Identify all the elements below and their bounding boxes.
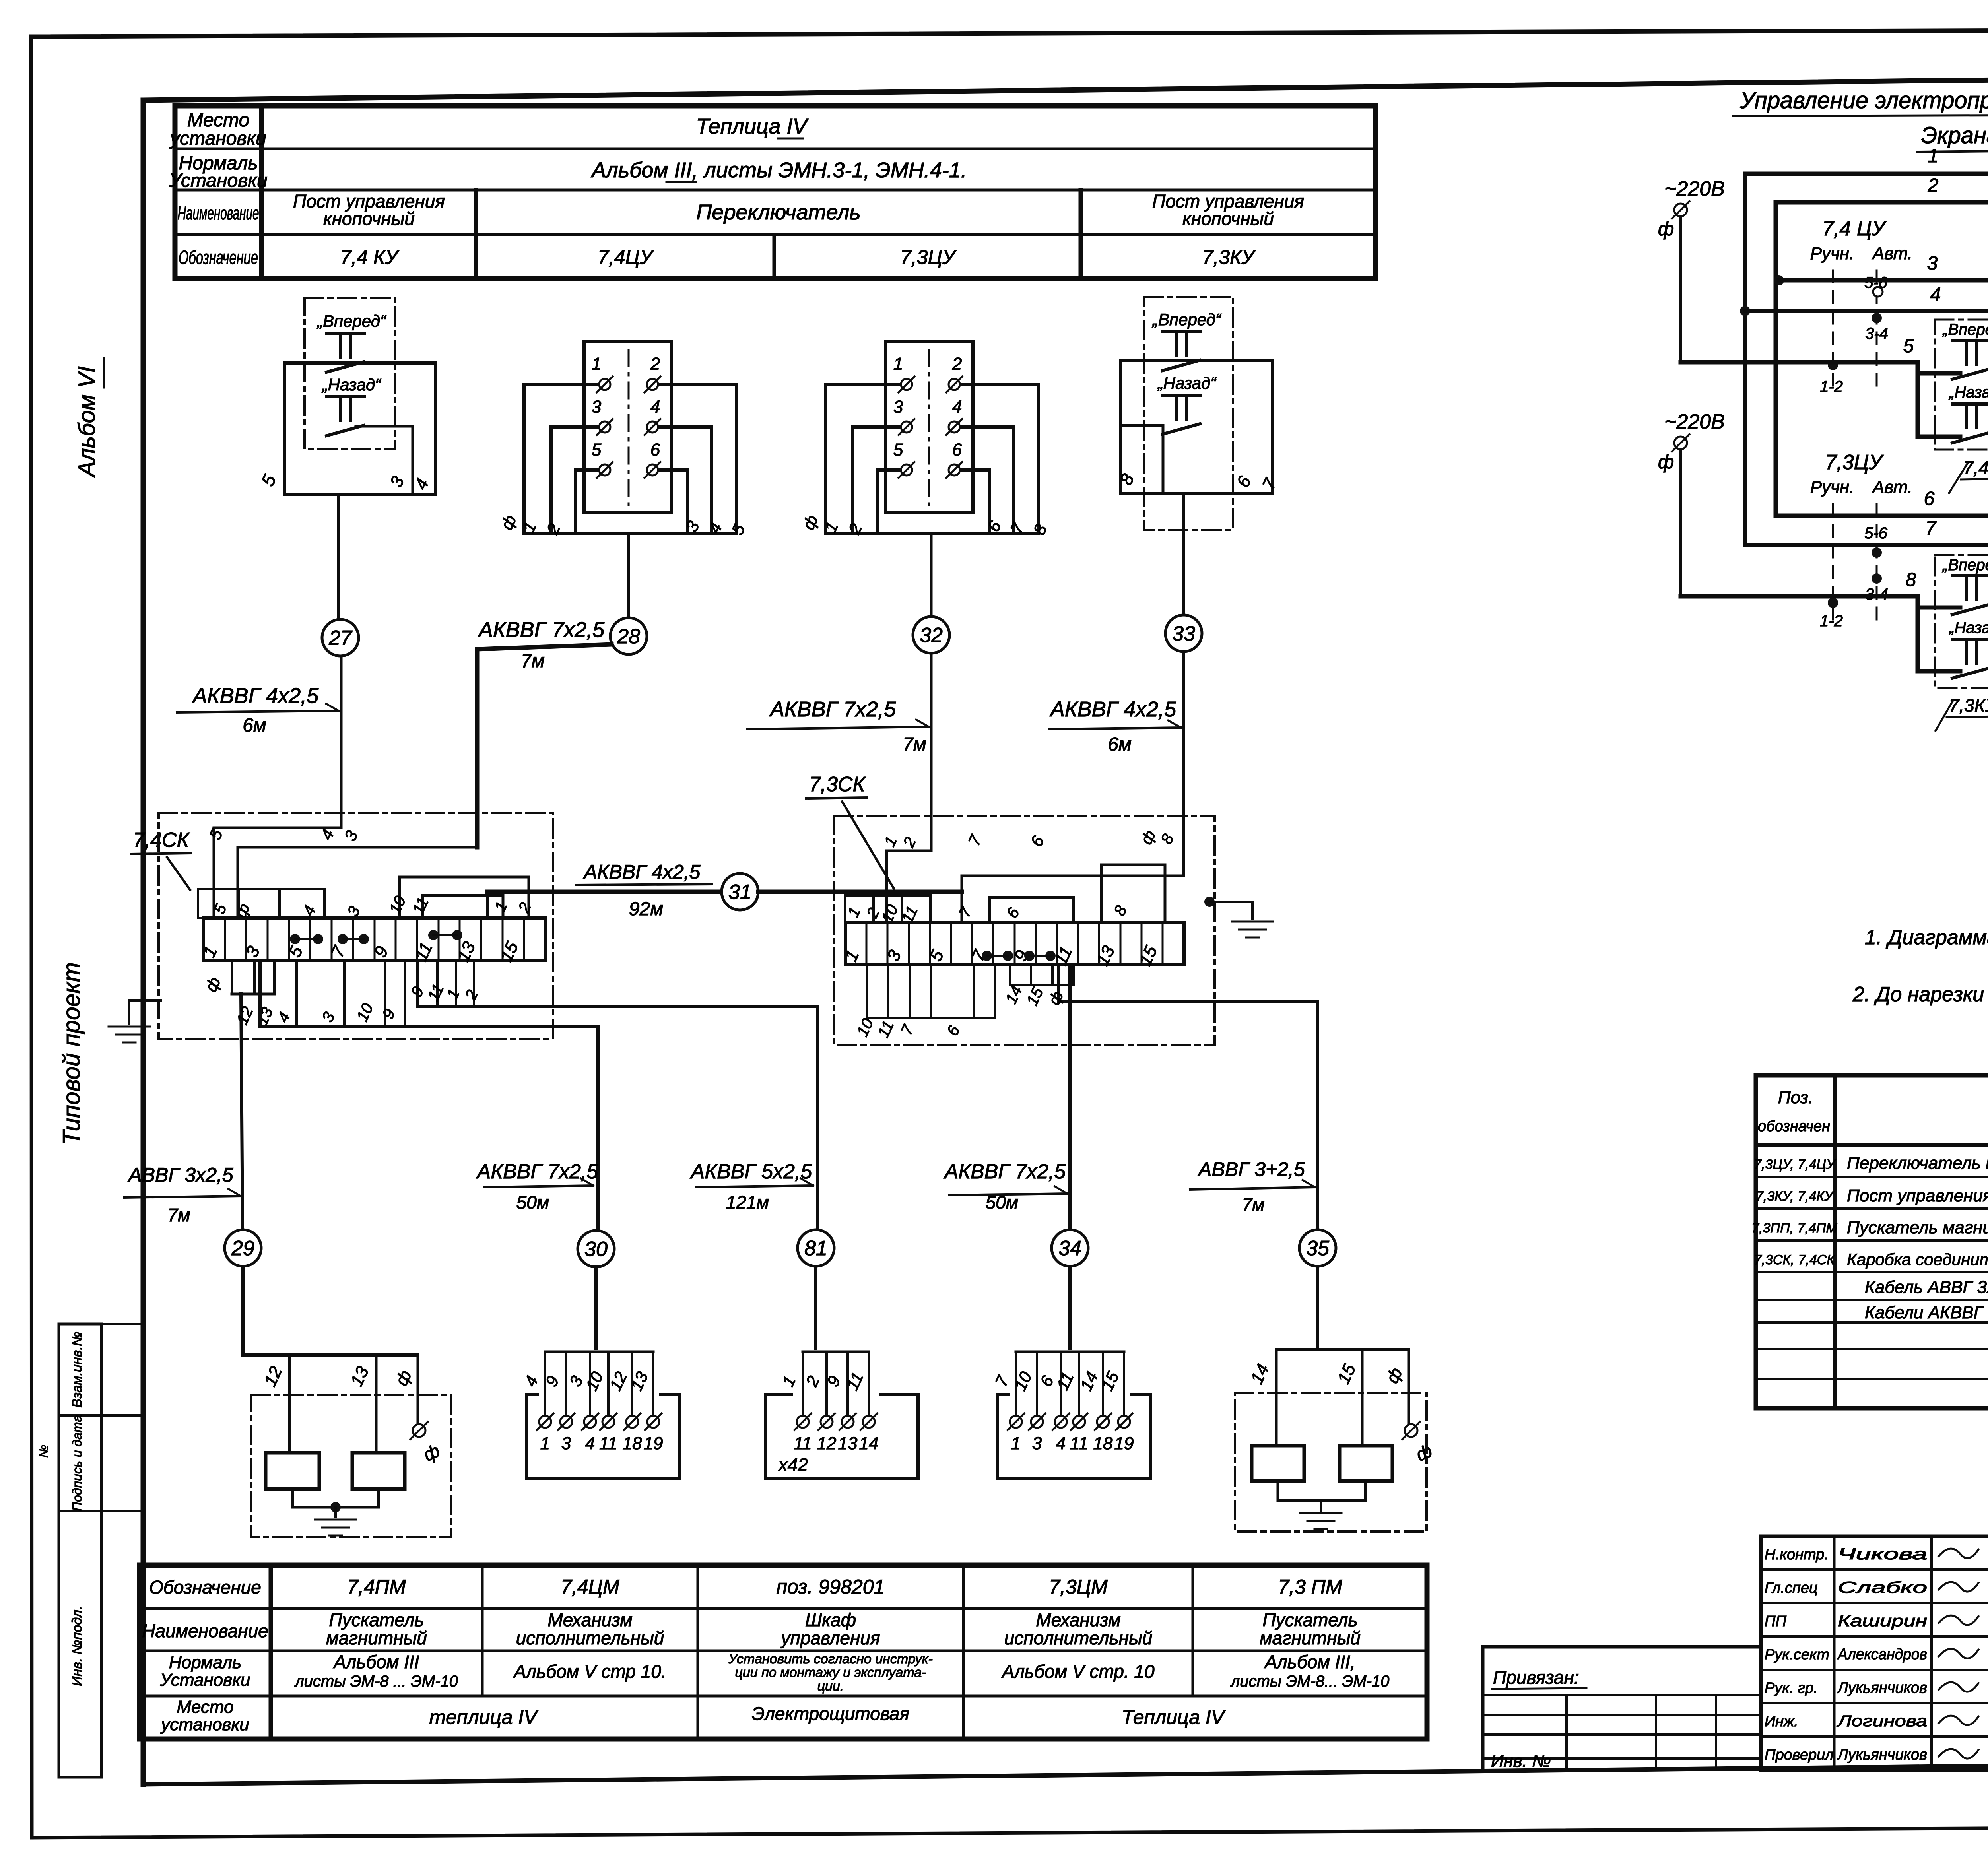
svg-text:Пускатель: Пускатель [1262, 1609, 1357, 1630]
svg-text:1: 1 [1928, 146, 1939, 167]
svg-text:2: 2 [650, 354, 660, 374]
junction box 7,3СК dash-dot enclosure [834, 816, 1215, 1045]
svg-text:Александров: Александров [1837, 1646, 1927, 1663]
svg-text:3: 3 [386, 473, 408, 490]
svg-text:ф: ф [420, 1440, 443, 1465]
svg-text:7: 7 [992, 1372, 1013, 1390]
svg-text:5-6: 5-6 [1864, 274, 1888, 291]
svg-text:исполнительный: исполнительный [1004, 1628, 1153, 1648]
svg-text:Альбом V стр. 10: Альбом V стр. 10 [1001, 1661, 1155, 1682]
svg-text:Установить согласно инструк-: Установить согласно инструк- [728, 1652, 933, 1667]
terminal strip of 7,3СК [841, 922, 1184, 969]
svg-text:Место: Место [177, 1697, 233, 1717]
circuit title Управление электроприводами теплозащитного экрана [1734, 87, 1988, 152]
packet switch 7,3ЦУ pins [893, 354, 962, 478]
svg-text:Механизм: Механизм [1036, 1609, 1120, 1630]
svg-text:11: 11 [1070, 1434, 1088, 1453]
svg-text:7,3ЦУ: 7,3ЦУ [900, 246, 957, 268]
svg-text:11: 11 [410, 895, 432, 917]
svg-text:10: 10 [353, 1001, 377, 1024]
svg-text:5: 5 [257, 471, 280, 489]
svg-text:8: 8 [1158, 831, 1178, 846]
wire: 7,4КУ to cable 27 [337, 495, 340, 619]
svg-text:Ручн.: Ручн. [1810, 477, 1854, 497]
svg-text:19: 19 [1114, 1434, 1134, 1453]
svg-text:32: 32 [920, 624, 943, 647]
svg-text:7,3 ПМ: 7,3 ПМ [1278, 1576, 1342, 1598]
svg-text:1: 1 [491, 899, 511, 914]
cable marker 33 [1165, 615, 1202, 652]
starter 7,3ПМ wiring bus [1247, 1349, 1435, 1465]
svg-text:50м: 50м [986, 1192, 1019, 1213]
svg-text:Установки: Установки [169, 170, 267, 191]
svg-text:4: 4 [1056, 1434, 1066, 1453]
starter 7,3ПМ dash-dot enclosure [1235, 1393, 1427, 1531]
starter 7,3ПМ ground link [1278, 1481, 1365, 1529]
svg-text:18: 18 [1093, 1434, 1113, 1453]
svg-text:11: 11 [875, 1018, 897, 1040]
svg-text:ПП: ПП [1765, 1613, 1787, 1630]
svg-text:29: 29 [231, 1237, 254, 1260]
margin text Альбом VI [74, 358, 104, 478]
signature table [1761, 1536, 1988, 1770]
AC source ~220В (upper) [1658, 177, 1725, 362]
svg-text:6: 6 [1924, 488, 1935, 509]
svg-text:30: 30 [584, 1238, 608, 1261]
svg-text:Типовой проект: Типовой проект [58, 962, 85, 1145]
terminal box 7,3ЦМ body [998, 1395, 1150, 1479]
svg-text:исполнительный: исполнительный [516, 1628, 664, 1648]
svg-text:4: 4 [585, 1434, 595, 1453]
svg-text:установки: установки [160, 1715, 249, 1734]
svg-text:Установки: Установки [160, 1670, 250, 1690]
svg-text:листы ЭМ-8... ЭМ-10: листы ЭМ-8... ЭМ-10 [1230, 1673, 1390, 1690]
svg-text:15: 15 [1334, 1361, 1359, 1387]
svg-text:ф: ф [1658, 452, 1674, 473]
svg-text:Шкаф: Шкаф [805, 1609, 856, 1630]
svg-text:50м: 50м [516, 1192, 549, 1213]
svg-text:1: 1 [779, 1373, 799, 1389]
svg-text:3-4: 3-4 [1865, 325, 1888, 342]
svg-text:7м: 7м [1242, 1194, 1264, 1215]
svg-text:Теплица IV: Теплица IV [696, 115, 809, 138]
svg-text:6: 6 [650, 440, 660, 460]
junction box 7,3СК label [806, 773, 894, 889]
svg-text:АВВГ 3х2,5: АВВГ 3х2,5 [127, 1164, 233, 1186]
svg-text:магнитный: магнитный [326, 1628, 427, 1648]
svg-text:Проверил: Проверил [1765, 1747, 1834, 1763]
svg-text:4: 4 [952, 397, 962, 417]
svg-text:18: 18 [623, 1434, 642, 1453]
wire 4 [1740, 284, 1988, 362]
wire 8 with buttons 7,3КУ [1681, 569, 1988, 608]
packet switch 7,4ЦУ body [584, 342, 671, 512]
svg-text:Рук.сект: Рук.сект [1765, 1646, 1829, 1663]
svg-text:„Назад“: „Назад“ [1948, 619, 1988, 637]
svg-text:Привязан:: Привязан: [1493, 1667, 1579, 1688]
cable marker 34 with label АКВВГ 7х2,5 50м [944, 1160, 1088, 1349]
wire loops above strip of 7,4СК [206, 826, 535, 920]
svg-text:14: 14 [1077, 1369, 1101, 1394]
svg-text:ции.: ции. [817, 1679, 844, 1694]
svg-text:Чикова: Чикова [1838, 1545, 1927, 1563]
push-button post 7,3КУ dash-dot enclosure [1144, 297, 1233, 530]
svg-text:28: 28 [617, 625, 640, 648]
svg-text:Каробка соединительная КСК-1: Каробка соединительная КСК-16 ТУ36.1073-… [1847, 1250, 1988, 1269]
svg-text:12: 12 [606, 1369, 631, 1394]
svg-text:АКВВГ 4х2,5: АКВВГ 4х2,5 [1049, 697, 1176, 721]
svg-text:ции по монтажу и эксплуата-: ции по монтажу и эксплуата- [735, 1665, 926, 1680]
svg-text:7: 7 [1926, 518, 1937, 539]
starter 7,4ПМ dash-dot enclosure [251, 1395, 451, 1537]
svg-text:2. До нарезки кабелей длины тр: 2. До нарезки кабелей длины трасс уточни… [1852, 983, 1988, 1006]
wire 5 with buttons 7,4КУ [1681, 336, 1988, 373]
packet switch 7,4ЦУ pins [592, 354, 660, 478]
svg-text:2: 2 [952, 354, 962, 374]
starter 7,4ПМ coil 1 [266, 1453, 319, 1489]
svg-text:1-2: 1-2 [1820, 378, 1843, 396]
svg-text:7,3ЦУ, 7,4ЦУ: 7,3ЦУ, 7,4ЦУ [1754, 1157, 1836, 1172]
ground of 7,3СК [1204, 897, 1273, 937]
svg-text:Каширин: Каширин [1838, 1612, 1927, 1630]
terminal box х42 bus and drops [779, 1352, 869, 1415]
svg-text:5-6: 5-6 [1864, 524, 1888, 542]
svg-text:х42: х42 [778, 1454, 808, 1475]
cable label АКВВГ 7х2,5 7м (pos.32) [747, 697, 929, 755]
wire 6 [1776, 488, 1988, 660]
svg-text:11: 11 [599, 1434, 617, 1453]
svg-text:Пускатель: Пускатель [329, 1609, 424, 1630]
svg-text:3: 3 [319, 1009, 338, 1025]
svg-text:5: 5 [592, 440, 602, 460]
svg-text:„Вперед“: „Вперед“ [1942, 321, 1988, 338]
svg-text:34: 34 [1058, 1237, 1081, 1260]
cable 28 route with label АКВВГ 7х2,5 7м [477, 618, 612, 847]
table: device header (Место установки / Нормаль установки / Наименование / Обозначение) [169, 106, 1376, 278]
table: bottom device list [140, 1565, 1427, 1739]
jumper links in 7,4СК [290, 930, 462, 944]
svg-text:12: 12 [817, 1434, 837, 1453]
svg-text:Экрана: Экрана [1921, 122, 1988, 148]
svg-text:7,3ЦМ: 7,3ЦМ [1049, 1576, 1108, 1598]
wire from Назад button 7,3 to pin 4 [1918, 600, 1988, 671]
push-button post 7,3КУ body [1116, 361, 1280, 494]
svg-text:7,4СУ: 7,4СУ [1963, 457, 1988, 478]
svg-text:Слабко: Слабко [1838, 1579, 1927, 1596]
svg-text:ф: ф [1382, 1365, 1406, 1386]
button Вперед of 7,4КУ [316, 312, 386, 372]
button Вперед of 7,3КУ [1152, 310, 1222, 371]
svg-text:1: 1 [845, 904, 864, 920]
svg-text:14: 14 [1247, 1361, 1273, 1387]
svg-text:2: 2 [845, 520, 866, 537]
svg-text:Авт.: Авт. [1872, 244, 1912, 263]
svg-text:Поз.: Поз. [1778, 1088, 1813, 1107]
cable marker 29 with label АВВГ 3х2,5 7м [124, 1164, 261, 1355]
wire 7 [1745, 518, 1988, 632]
svg-text:АКВВГ 4х2,5: АКВВГ 4х2,5 [192, 684, 319, 708]
svg-text:ф: ф [799, 512, 821, 533]
svg-text:35: 35 [1306, 1237, 1330, 1260]
svg-text:2: 2 [900, 835, 920, 850]
button post 7,4КУ in circuit (dash-dot) [1935, 320, 1988, 493]
wire loops of 7,3ЦУ [799, 384, 1050, 538]
svg-text:13: 13 [838, 1434, 858, 1453]
svg-text:92м: 92м [629, 899, 663, 920]
svg-text:15: 15 [1023, 984, 1047, 1008]
svg-text:3: 3 [893, 397, 903, 417]
terminal box 7,4ЦМ bus and drops [521, 1352, 653, 1415]
svg-text:1: 1 [592, 354, 601, 374]
svg-text:13: 13 [627, 1369, 652, 1394]
svg-text:7: 7 [965, 832, 986, 849]
cable marker 30 with label АКВВГ 7х2,5 50м [476, 1160, 614, 1349]
svg-text:АКВВГ 5х2,5: АКВВГ 5х2,5 [690, 1160, 813, 1183]
svg-text:Альбом VI: Альбом VI [74, 366, 100, 477]
svg-text:Инж.: Инж. [1765, 1713, 1798, 1730]
svg-text:7,3СК: 7,3СК [809, 773, 866, 796]
svg-text:Обозначение: Обозначение [149, 1577, 261, 1597]
svg-text:Альбом III: Альбом III [333, 1652, 419, 1672]
wire 3 [1774, 253, 1988, 424]
svg-text:ф: ф [1413, 1440, 1435, 1465]
svg-text:2: 2 [543, 520, 564, 537]
svg-text:АКВВГ 4х2,5: АКВВГ 4х2,5 [583, 861, 701, 883]
svg-text:31: 31 [728, 881, 751, 904]
wire loops of 7,4ЦУ [497, 384, 749, 538]
junction box 7,4СК label [131, 829, 191, 890]
svg-text:7м: 7м [903, 734, 926, 755]
jumper links in 7,3СК [982, 951, 1056, 961]
cable 31 link between boxes [487, 861, 962, 922]
svg-text:10: 10 [582, 1368, 607, 1394]
svg-text:АКВВГ 7х2,5: АКВВГ 7х2,5 [476, 1160, 599, 1183]
svg-text:4: 4 [274, 1009, 294, 1025]
svg-text:Альбом III, листы ЭМН.3-1, ЭМ: Альбом III, листы ЭМН.3-1, ЭМН.4-1. [590, 158, 967, 182]
svg-text:7,3КУ: 7,3КУ [1202, 246, 1256, 268]
svg-text:1: 1 [540, 1434, 550, 1453]
svg-text:Взам.инв.№: Взам.инв.№ [70, 1331, 85, 1407]
svg-text:2: 2 [515, 900, 535, 916]
svg-text:2: 2 [1928, 175, 1939, 196]
svg-text:3: 3 [566, 1373, 586, 1389]
svg-text:14: 14 [859, 1434, 879, 1453]
svg-text:4: 4 [1930, 284, 1941, 305]
svg-text:7,4СК: 7,4СК [133, 829, 190, 852]
svg-text:Переключатель пакетный ПКП25: Переключатель пакетный ПКП25- 44- 13- У2 [1847, 1153, 1988, 1173]
svg-text:121м: 121м [726, 1192, 769, 1213]
svg-text:7,4ЦУ: 7,4ЦУ [598, 246, 654, 268]
svg-text:ф: ф [201, 974, 224, 995]
svg-text:1: 1 [893, 354, 903, 374]
svg-text:7,4 ЦУ: 7,4 ЦУ [1822, 217, 1887, 240]
svg-text:Гл.спец: Гл.спец [1765, 1580, 1818, 1596]
svg-text:6м: 6м [243, 715, 266, 736]
svg-text:кнопочный: кнопочный [323, 208, 415, 229]
svg-text:АВВГ 3+2,5: АВВГ 3+2,5 [1197, 1158, 1305, 1180]
svg-text:6: 6 [944, 1023, 964, 1038]
svg-text:~220В: ~220В [1664, 177, 1725, 200]
svg-text:9: 9 [379, 1006, 399, 1022]
svg-text:Подпись и дата: Подпись и дата [70, 1415, 84, 1511]
packet switch 7,3ЦУ body [886, 342, 973, 512]
svg-text:12: 12 [260, 1363, 286, 1389]
upper cell row of 7,3СК [845, 895, 930, 922]
svg-text:1-2: 1-2 [1820, 612, 1843, 630]
svg-text:14: 14 [1002, 983, 1026, 1007]
svg-text:Альбом V стр 10.: Альбом V стр 10. [513, 1661, 666, 1682]
svg-text:Пускатель магнитный: Пускатель магнитный [1847, 1218, 1988, 1237]
button post 7,3КУ in circuit (dash-dot) [1935, 555, 1988, 731]
svg-text:33: 33 [1172, 622, 1195, 645]
svg-text:АКВВГ 7х2,5: АКВВГ 7х2,5 [478, 618, 605, 642]
binding table Привязан [1483, 1647, 1761, 1771]
terminal box 7,3ЦМ bus and drops [992, 1352, 1124, 1415]
terminal box х42 body [765, 1395, 918, 1479]
svg-text:27: 27 [328, 627, 353, 650]
push-button post 7,4КУ dash-dot enclosure [305, 298, 395, 449]
wire: 7,3ЦУ to cable 32 [930, 533, 933, 617]
svg-text:3: 3 [592, 397, 602, 417]
svg-text:обозначен: обозначен [1758, 1118, 1830, 1135]
cable label АКВВГ 4х2,5 6м (pos.33) [1049, 697, 1181, 755]
ground of 7,4СК [109, 1000, 161, 1042]
svg-text:Обозначение: Обозначение [179, 247, 258, 268]
bus wire 1 [1745, 146, 1988, 545]
svg-text:Нормаль: Нормаль [169, 1653, 241, 1672]
margin stamp strip [37, 1324, 143, 1777]
wire: cable 27 down to box 7,4СК [340, 656, 343, 828]
svg-text:„Вперед“: „Вперед“ [1152, 310, 1222, 329]
svg-text:1. Диаграмма работы переключ: 1. Диаграмма работы переключателей дана … [1865, 926, 1988, 949]
starter 7,4ПМ coil 2 [352, 1453, 405, 1489]
svg-text:5: 5 [1903, 336, 1914, 357]
svg-text:поз. 998201: поз. 998201 [777, 1576, 885, 1598]
wire: cable 32 down to box 7,3СК [930, 653, 933, 851]
terminal strip of 7,4СК [199, 918, 545, 965]
svg-text:7м: 7м [167, 1205, 190, 1225]
svg-text:листы ЭМ-8 ... ЭМ-10: листы ЭМ-8 ... ЭМ-10 [294, 1673, 458, 1690]
svg-text:4: 4 [300, 903, 319, 918]
svg-text:Электрощитовая: Электрощитовая [752, 1703, 909, 1724]
svg-text:5: 5 [893, 440, 903, 460]
svg-text:11: 11 [843, 1369, 867, 1393]
wires below strip of 7,3СК to starters [854, 964, 1318, 1230]
svg-text:Авт.: Авт. [1872, 477, 1912, 497]
svg-text:81: 81 [804, 1237, 827, 1260]
svg-text:5: 5 [728, 521, 749, 538]
svg-text:2: 2 [462, 987, 481, 1003]
svg-text:Теплица IV: Теплица IV [1122, 1706, 1226, 1728]
svg-text:Инв. №подл.: Инв. №подл. [70, 1606, 85, 1686]
AC source ~220В (lower) [1658, 410, 1725, 596]
svg-text:магнитный: магнитный [1260, 1628, 1361, 1648]
svg-text:ф: ф [392, 1367, 415, 1389]
svg-text:7,4 КУ: 7,4 КУ [340, 246, 400, 268]
cable marker 28 [610, 618, 647, 654]
svg-text:Инв. №: Инв. № [1491, 1751, 1551, 1771]
svg-text:АКВВГ 7х2,5: АКВВГ 7х2,5 [944, 1160, 1066, 1183]
svg-text:3: 3 [1032, 1434, 1042, 1453]
svg-text:Пост управления кнопочный П: Пост управления кнопочный ПКЕ222- 2 [1847, 1186, 1988, 1205]
svg-text:7м: 7м [521, 650, 545, 672]
svg-text:ф: ф [497, 512, 520, 533]
svg-text:№: № [37, 1445, 50, 1458]
junction box 7,4СК dash-dot enclosure [159, 813, 553, 1039]
svg-text:кнопочный: кнопочный [1182, 208, 1274, 229]
svg-text:6: 6 [952, 440, 962, 460]
svg-text:8: 8 [1906, 569, 1916, 590]
svg-text:13: 13 [347, 1363, 373, 1390]
svg-text:11: 11 [1053, 1369, 1077, 1393]
svg-text:ф: ф [1658, 219, 1674, 240]
svg-text:10: 10 [386, 893, 410, 917]
wire: 7,3КУ to cable 33 [1182, 494, 1185, 616]
starter 7,4ПМ ground link [293, 1489, 379, 1535]
svg-text:„Назад“: „Назад“ [322, 375, 381, 394]
svg-text:3: 3 [1927, 253, 1938, 274]
svg-text:11: 11 [794, 1434, 812, 1453]
svg-text:6м: 6м [1108, 734, 1132, 755]
terminal box 7,4ЦМ body [527, 1395, 679, 1479]
svg-text:4: 4 [411, 476, 433, 493]
svg-text:7: 7 [1258, 475, 1280, 493]
svg-text:2: 2 [802, 1373, 823, 1390]
svg-text:„Назад“: „Назад“ [1948, 384, 1988, 401]
table: parts list [1751, 1075, 1988, 1409]
svg-text:4: 4 [650, 397, 660, 417]
wire: 7,4ЦУ to cable 28 [627, 533, 630, 619]
svg-text:11: 11 [425, 981, 447, 1003]
button Назад of 7,4КУ [322, 375, 381, 436]
svg-text:6: 6 [1037, 1373, 1058, 1390]
svg-text:Рук. гр.: Рук. гр. [1765, 1680, 1818, 1696]
svg-text:6: 6 [1233, 473, 1255, 490]
svg-text:6: 6 [1004, 905, 1023, 920]
svg-text:3: 3 [561, 1434, 571, 1453]
svg-text:Лукьянчиков: Лукьянчиков [1837, 1679, 1927, 1696]
svg-text:Лукьянчиков: Лукьянчиков [1837, 1746, 1927, 1763]
svg-text:Управление электроприводами т: Управление электроприводами теплозащитно… [1740, 87, 1988, 113]
svg-text:Наименование: Наименование [142, 1621, 268, 1641]
svg-text:7,4ПМ: 7,4ПМ [347, 1576, 406, 1598]
svg-text:Ручн.: Ручн. [1810, 244, 1854, 263]
svg-text:ф: ф [1138, 828, 1159, 847]
svg-text:7: 7 [898, 1022, 918, 1038]
svg-text:7,3ЦУ: 7,3ЦУ [1825, 451, 1884, 474]
starter 7,3ПМ coil 1 [1252, 1446, 1304, 1481]
svg-text:6: 6 [1027, 833, 1048, 850]
starter 7,4ПМ wiring bus [243, 1355, 443, 1465]
svg-text:7,3ПП, 7,4ПМ: 7,3ПП, 7,4ПМ [1751, 1221, 1837, 1236]
wires below strip of 7,4СК to starters [201, 963, 818, 1231]
svg-text:3: 3 [341, 827, 361, 844]
wire: cable 33 down to box 7,3СК [1182, 652, 1185, 876]
switch 7,4ЦУ (manual/auto) contacts [1810, 217, 1912, 396]
svg-text:19: 19 [644, 1434, 663, 1453]
svg-text:ф: ф [1045, 988, 1067, 1008]
svg-text:4: 4 [521, 1373, 542, 1389]
cable marker 81 with label АКВВГ 5х2,5 121м [690, 1160, 834, 1349]
svg-text:Альбом III,: Альбом III, [1264, 1652, 1355, 1672]
svg-text:1: 1 [444, 986, 463, 1002]
svg-text:„Назад“: „Назад“ [1157, 374, 1217, 392]
svg-text:теплица IV: теплица IV [429, 1706, 539, 1728]
svg-text:АКВВГ 7х2,5: АКВВГ 7х2,5 [769, 697, 896, 721]
svg-text:установки: установки [169, 128, 266, 149]
starter 7,3ПМ coil 2 [1340, 1446, 1392, 1481]
svg-text:управления: управления [780, 1628, 880, 1648]
